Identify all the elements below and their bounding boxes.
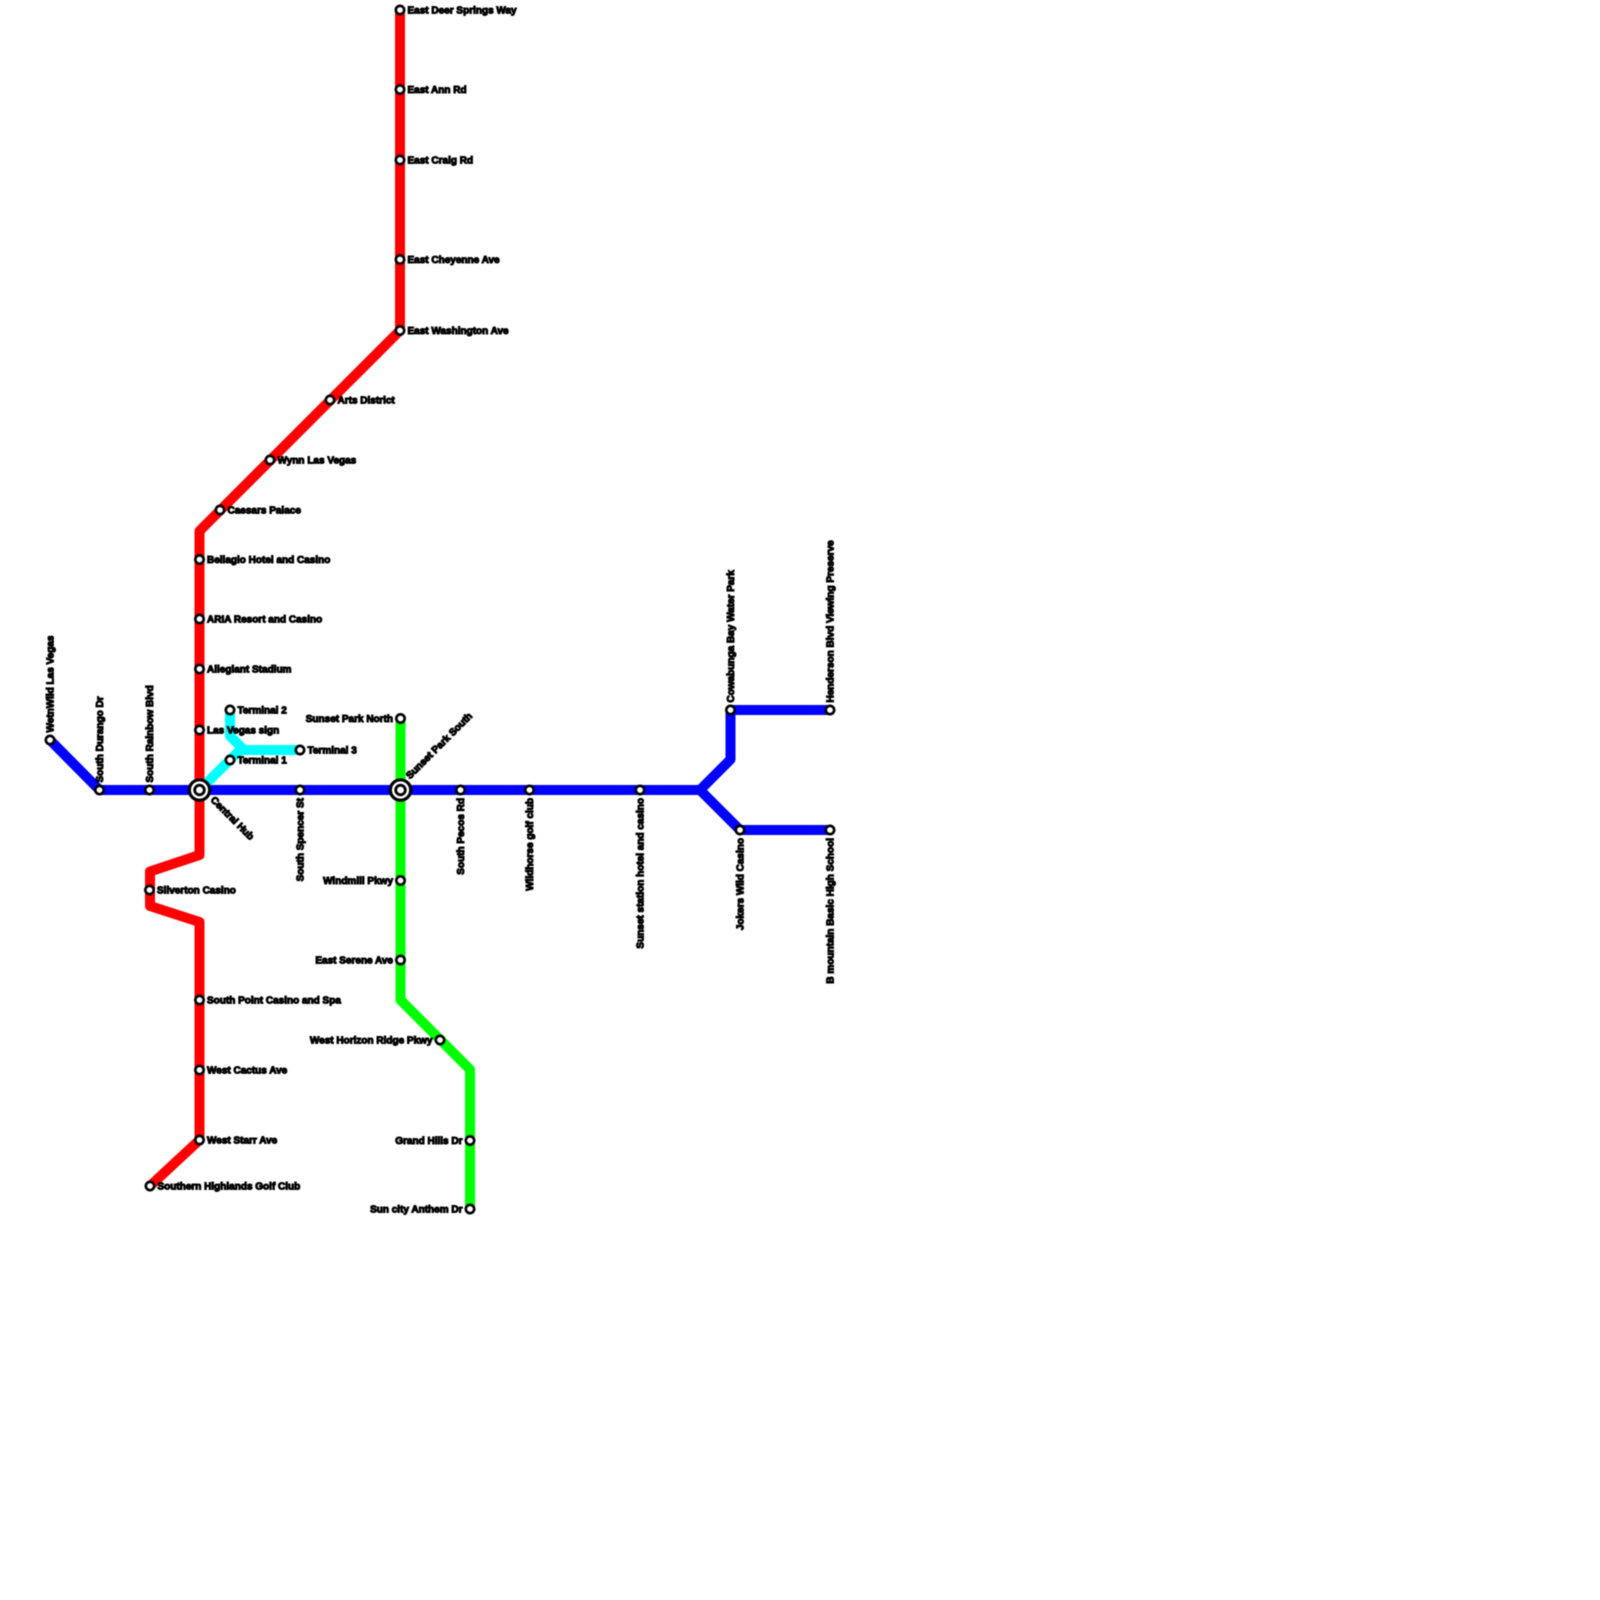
station Las Vegas sign bbox=[195, 726, 279, 737]
svg-text:East Ann Rd: East Ann Rd bbox=[408, 85, 467, 96]
station Jokers Wild Casino bbox=[736, 826, 747, 930]
blue line upper branch bbox=[700, 710, 830, 790]
svg-text:Terminal 2: Terminal 2 bbox=[238, 706, 288, 717]
interchange Sunset Park South bbox=[390, 711, 475, 800]
svg-text:Bellagio Hotel and Casino: Bellagio Hotel and Casino bbox=[207, 555, 330, 566]
station Terminal 1 bbox=[226, 756, 287, 767]
station Caesars Palace bbox=[216, 506, 302, 517]
svg-text:South Spencer St: South Spencer St bbox=[296, 797, 307, 881]
svg-text:East Craig Rd: East Craig Rd bbox=[408, 156, 474, 167]
svg-text:Wynn Las Vegas: Wynn Las Vegas bbox=[278, 456, 357, 467]
svg-text:Sunset Park North: Sunset Park North bbox=[306, 714, 393, 725]
svg-text:Las Vegas sign: Las Vegas sign bbox=[207, 726, 279, 737]
interchange Central Hub bbox=[189, 780, 255, 843]
station Arts District bbox=[326, 396, 396, 407]
svg-text:Silverton Casino: Silverton Casino bbox=[157, 886, 236, 897]
station Windmill Pkwy bbox=[323, 876, 405, 887]
station East Deer Springs Way bbox=[396, 6, 517, 17]
station Terminal 3 bbox=[296, 746, 357, 757]
svg-text:South Point Casino and Spa: South Point Casino and Spa bbox=[207, 996, 341, 1007]
station ARIA Resort and Casino bbox=[195, 615, 322, 626]
svg-text:B mountain Basic High School: B mountain Basic High School bbox=[826, 838, 837, 984]
svg-text:East Cheyenne Ave: East Cheyenne Ave bbox=[408, 255, 501, 266]
station West Cactus Ave bbox=[195, 1066, 287, 1077]
blue line main bbox=[50, 740, 700, 790]
svg-text:Southern Highlands Golf Club: Southern Highlands Golf Club bbox=[158, 1182, 301, 1193]
station Wynn Las Vegas bbox=[266, 456, 357, 467]
station West Horizon Ridge Pkwy bbox=[310, 1036, 444, 1047]
svg-text:Allegiant Stadium: Allegiant Stadium bbox=[207, 665, 292, 676]
svg-text:Sunset station hotel and casin: Sunset station hotel and casino bbox=[636, 798, 647, 949]
blue line lower branch bbox=[700, 790, 830, 830]
svg-text:South Durango Dr: South Durango Dr bbox=[95, 696, 106, 782]
svg-text:South Pecos Rd: South Pecos Rd bbox=[456, 798, 467, 875]
svg-text:West Cactus Ave: West Cactus Ave bbox=[207, 1066, 288, 1077]
station Bellagio Hotel and Casino bbox=[195, 555, 330, 566]
svg-text:ARIA Resort and Casino: ARIA Resort and Casino bbox=[207, 615, 322, 626]
station Southern Highlands Golf Club bbox=[146, 1182, 300, 1193]
station South Pecos Rd bbox=[456, 786, 467, 875]
svg-text:Wildhorse golf club: Wildhorse golf club bbox=[525, 798, 536, 891]
svg-text:WetnWild Las Vegas: WetnWild Las Vegas bbox=[46, 635, 57, 732]
svg-text:West Starr Ave: West Starr Ave bbox=[207, 1136, 278, 1147]
svg-text:Grand Hills Dr: Grand Hills Dr bbox=[395, 1136, 462, 1147]
station Grand Hills Dr bbox=[395, 1136, 474, 1147]
station Sunset Park North bbox=[306, 714, 405, 725]
cyan line hub to Terminal 3 bbox=[200, 750, 301, 790]
svg-text:Windmill Pkwy: Windmill Pkwy bbox=[323, 876, 393, 887]
svg-text:South Rainbow Blvd: South Rainbow Blvd bbox=[145, 685, 156, 782]
station East Washington Ave bbox=[396, 326, 509, 337]
station Cowabunga Bay Water Park bbox=[726, 570, 737, 715]
svg-text:Henderson Blvd Viewing Preserv: Henderson Blvd Viewing Preserve bbox=[826, 540, 837, 703]
station Silverton Casino bbox=[145, 886, 236, 897]
svg-text:Sun city Anthem Dr: Sun city Anthem Dr bbox=[370, 1205, 463, 1216]
station East Cheyenne Ave bbox=[396, 255, 500, 266]
svg-text:Terminal 3: Terminal 3 bbox=[308, 746, 358, 757]
red line bbox=[150, 10, 400, 1186]
station Wildhorse golf club bbox=[525, 786, 536, 891]
station East Craig Rd bbox=[396, 156, 473, 167]
svg-text:Jokers Wild Casino: Jokers Wild Casino bbox=[736, 838, 747, 930]
svg-text:West Horizon Ridge Pkwy: West Horizon Ridge Pkwy bbox=[310, 1036, 433, 1047]
station East Ann Rd bbox=[396, 85, 467, 96]
station Sunset station hotel and casino bbox=[636, 786, 647, 949]
station B mountain Basic High School bbox=[826, 826, 837, 984]
svg-text:Cowabunga Bay Water Park: Cowabunga Bay Water Park bbox=[726, 570, 737, 703]
station Henderson Blvd Viewing Preserve bbox=[826, 540, 837, 714]
station Terminal 2 bbox=[226, 706, 287, 717]
station South Point Casino and Spa bbox=[195, 996, 341, 1007]
station South Spencer St bbox=[296, 786, 307, 882]
station West Starr Ave bbox=[195, 1136, 277, 1147]
svg-text:East Deer Springs Way: East Deer Springs Way bbox=[408, 6, 518, 17]
svg-text:Caesars Palace: Caesars Palace bbox=[228, 506, 302, 517]
station East Serene Ave bbox=[315, 956, 404, 967]
svg-text:Terminal 1: Terminal 1 bbox=[238, 756, 288, 767]
svg-text:Arts District: Arts District bbox=[338, 396, 396, 407]
station South Rainbow Blvd bbox=[145, 685, 156, 794]
cyan line Terminal 2 branch bbox=[230, 710, 244, 750]
green line bbox=[401, 719, 471, 1210]
svg-text:East Washington Ave: East Washington Ave bbox=[408, 326, 510, 337]
station WetnWild Las Vegas bbox=[46, 635, 57, 744]
station Allegiant Stadium bbox=[195, 665, 291, 676]
station South Durango Dr bbox=[95, 696, 106, 794]
station Sun city Anthem Dr bbox=[370, 1205, 474, 1216]
svg-text:East Serene Ave: East Serene Ave bbox=[315, 956, 393, 967]
